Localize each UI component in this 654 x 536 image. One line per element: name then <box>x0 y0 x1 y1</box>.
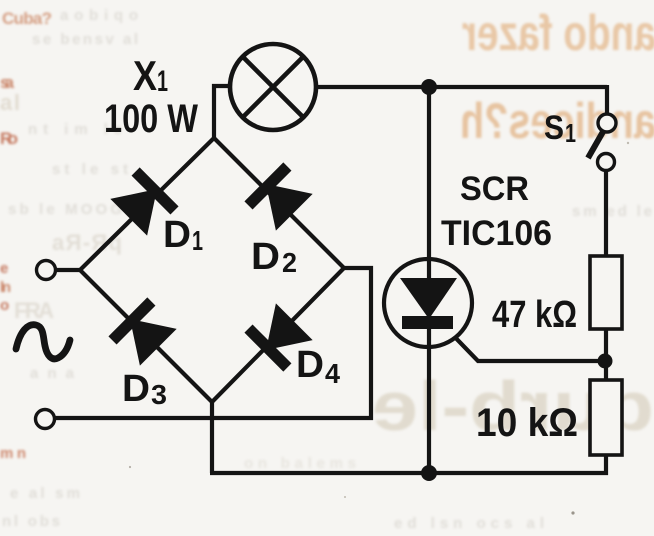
svg-text:1: 1 <box>157 65 168 98</box>
svg-text:X: X <box>133 52 157 99</box>
svg-text:47 kΩ: 47 kΩ <box>492 294 577 336</box>
svg-text:3: 3 <box>151 379 167 410</box>
svg-text:TIC106: TIC106 <box>441 214 552 253</box>
svg-text:sm ed le: sm ed le <box>572 203 652 220</box>
svg-text:S: S <box>544 109 564 147</box>
svg-text:on balems: on balems <box>244 455 356 472</box>
svg-text:ln: ln <box>0 279 11 296</box>
svg-text:Ro: Ro <box>0 129 18 148</box>
svg-text:Cuba?: Cuba? <box>2 9 52 28</box>
svg-text:100 W: 100 W <box>104 97 198 141</box>
svg-text:nl obs: nl obs <box>2 513 60 530</box>
svg-text:D: D <box>296 344 324 386</box>
svg-text:10 kΩ: 10 kΩ <box>476 401 578 445</box>
svg-text:aЯ-Яq: aЯ-Яq <box>52 230 122 255</box>
svg-text:mn: mn <box>0 445 26 462</box>
svg-text:D: D <box>251 236 280 278</box>
svg-text:4: 4 <box>325 358 340 389</box>
svg-text:2: 2 <box>282 247 297 278</box>
svg-text:FRA: FRA <box>14 298 54 323</box>
svg-text:D: D <box>163 214 191 256</box>
svg-text:D: D <box>122 368 150 410</box>
svg-text:al: al <box>0 90 20 115</box>
svg-text:1: 1 <box>565 118 576 148</box>
svg-text:ando fazer: ando fazer <box>462 5 654 61</box>
svg-text:SCR: SCR <box>460 170 529 208</box>
svg-text:1: 1 <box>192 225 203 256</box>
svg-text:e: e <box>0 260 8 277</box>
svg-text:ana: ana <box>30 365 75 382</box>
svg-text:o: o <box>0 297 9 314</box>
svg-text:se bensv al: se bensv al <box>32 31 138 48</box>
svg-text:sb le MOOG: sb le MOOG <box>8 201 122 218</box>
